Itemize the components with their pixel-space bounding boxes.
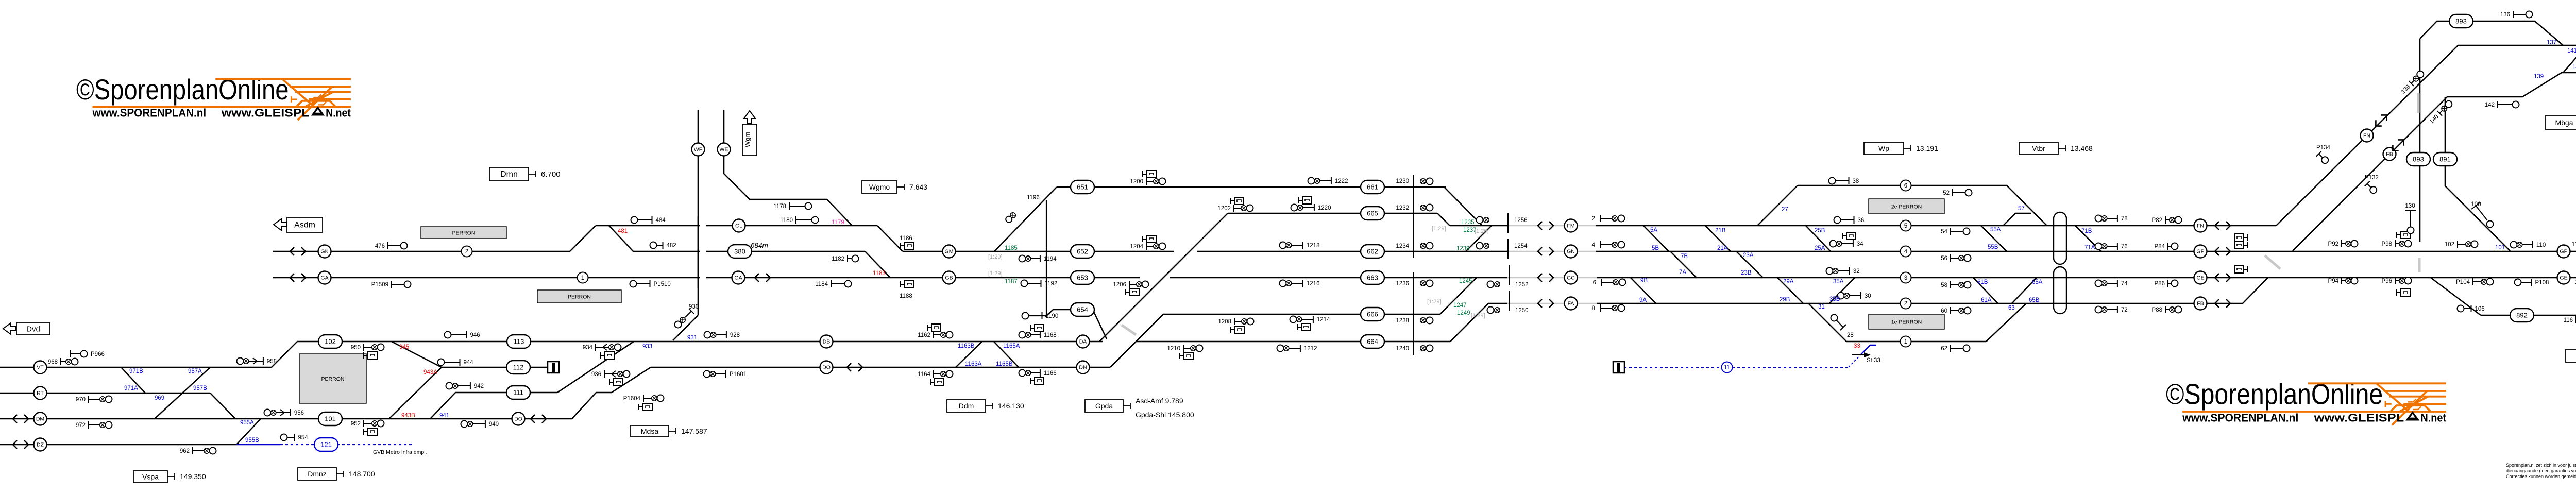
svg-text:PERRON: PERRON xyxy=(452,230,476,236)
signal 1194 xyxy=(1019,255,1026,262)
svg-text:GB: GB xyxy=(945,275,953,281)
signal 116 xyxy=(2575,316,2576,323)
signal 1168 dwarf xyxy=(1030,325,1031,331)
svg-text:661: 661 xyxy=(1367,183,1378,191)
buffer 112 row xyxy=(548,362,559,373)
svg-text:www.GLEISPL: www.GLEISPL xyxy=(2313,411,2404,424)
svg-text:61B: 61B xyxy=(1977,279,1988,285)
oval 664 xyxy=(1361,335,1384,348)
node GA xyxy=(318,271,331,284)
node platform circle 4 xyxy=(1901,246,1911,257)
arrows GN xyxy=(1538,247,1553,255)
svg-text:78: 78 xyxy=(2121,216,2128,222)
svg-text:1245: 1245 xyxy=(1459,278,1472,284)
svg-text:DZ: DZ xyxy=(37,442,44,448)
svg-text:1232: 1232 xyxy=(1396,205,1409,211)
svg-text:DB: DB xyxy=(823,339,831,345)
svg-text:101: 101 xyxy=(2495,245,2505,251)
oval 661 xyxy=(1361,180,1384,194)
wire blue shunt dash diag xyxy=(1849,355,1860,367)
svg-text:Sporenplan.nl zet zich in voor: Sporenplan.nl zet zich in voor juiste in… xyxy=(2506,463,2576,468)
signal 76 xyxy=(2095,243,2102,250)
svg-text:945: 945 xyxy=(399,344,409,350)
wire 654 row xyxy=(1045,310,1107,339)
wire FM-row5 east xyxy=(1596,225,2276,227)
svg-text:968: 968 xyxy=(48,359,58,365)
wire 651 up diagonal xyxy=(994,187,1057,251)
signal 972 xyxy=(88,421,89,429)
arrows DM xyxy=(13,415,28,423)
svg-text:971A: 971A xyxy=(124,385,138,391)
wire 892 row xyxy=(2481,315,2576,316)
svg-text:7.643: 7.643 xyxy=(909,183,927,191)
arrows DO east xyxy=(847,363,862,371)
svg-text:7A: 7A xyxy=(1679,269,1686,276)
svg-text:113: 113 xyxy=(514,338,524,346)
wire GC row gray xyxy=(1507,277,1597,279)
node platform circle 6 xyxy=(1901,180,1911,191)
wire GN-row4 east xyxy=(1596,251,2576,252)
st33 arrow xyxy=(1852,354,1866,355)
svg-text:St 33: St 33 xyxy=(1867,357,1880,364)
signal 1168 xyxy=(1019,332,1026,338)
svg-text:102: 102 xyxy=(2445,242,2454,248)
svg-text:1163B: 1163B xyxy=(958,343,975,349)
svg-text:P1601: P1601 xyxy=(730,371,747,378)
signal 1250 xyxy=(1487,307,1494,314)
signal 136 xyxy=(2513,11,2514,18)
oval 102 xyxy=(318,335,342,348)
wire GK up diagonal xyxy=(570,226,596,251)
oval 101 xyxy=(318,412,342,425)
svg-text:5: 5 xyxy=(1904,223,1907,229)
svg-text:946: 946 xyxy=(470,332,480,338)
svg-text:934: 934 xyxy=(583,345,593,351)
svg-text:1: 1 xyxy=(1904,339,1907,345)
svg-text:931: 931 xyxy=(687,335,697,341)
signal 34 dwarf xyxy=(1842,233,1843,239)
svg-text:Wgm: Wgm xyxy=(743,132,751,147)
svg-text:955B: 955B xyxy=(245,437,259,444)
svg-text:955A: 955A xyxy=(240,420,254,426)
svg-text:38: 38 xyxy=(1853,178,1859,184)
wire GA row xyxy=(273,277,1140,279)
wire RT to DM diagonal xyxy=(210,393,235,419)
svg-text:962: 962 xyxy=(180,448,190,454)
svg-text:GM: GM xyxy=(945,249,954,255)
km post dash 2 xyxy=(2418,258,2421,272)
wire crossover 141 xyxy=(2563,45,2576,73)
svg-text:956: 956 xyxy=(294,410,304,416)
wire WF merge diagonal xyxy=(673,315,698,340)
wire 666 to 663 diagonal 1245 xyxy=(1440,278,1477,314)
svg-text:101: 101 xyxy=(325,415,336,423)
svg-text:P88: P88 xyxy=(2152,307,2162,313)
svg-text:102: 102 xyxy=(325,338,336,346)
wire crossover 25B25A xyxy=(1806,226,1831,251)
wire 664 to FA diagonal 1247 xyxy=(1450,303,1488,342)
svg-text:6.700: 6.700 xyxy=(541,170,561,179)
signal 58 xyxy=(1950,281,1951,288)
signal 1180 xyxy=(795,216,796,224)
svg-text:1162: 1162 xyxy=(918,332,930,338)
arrows FB diagonal xyxy=(2390,137,2407,154)
svg-text:684m: 684m xyxy=(751,242,768,249)
wire FB to GE merge xyxy=(2243,278,2268,303)
node DO east xyxy=(820,361,833,374)
signal 1200 dwarf xyxy=(1142,171,1143,177)
signal 954 xyxy=(281,434,287,441)
svg-text:11: 11 xyxy=(1724,365,1730,371)
signal 482 xyxy=(650,242,657,249)
svg-text:Vtbr: Vtbr xyxy=(2032,144,2045,152)
wire crossover 7B7A xyxy=(1670,251,1697,278)
node GE2 xyxy=(2557,271,2570,284)
wire 891 vertical xyxy=(2445,97,2446,186)
svg-text:664: 664 xyxy=(1367,338,1378,346)
signal 1220 dwarf xyxy=(1298,197,1299,203)
box Kva xyxy=(2566,349,2576,362)
svg-text:1185: 1185 xyxy=(1005,245,1018,251)
signal 1256 xyxy=(1477,217,1483,224)
svg-text:N.net: N.net xyxy=(326,106,351,119)
gantry 2744 top xyxy=(1413,175,1414,258)
svg-text:6: 6 xyxy=(1593,280,1596,286)
signal 1192 xyxy=(1021,280,1028,287)
svg-text:DO: DO xyxy=(822,365,831,371)
svg-text:943A: 943A xyxy=(423,369,437,376)
wire 1190 stub xyxy=(1023,315,1046,316)
svg-text:1e PERRON: 1e PERRON xyxy=(1891,319,1922,326)
signal 74 xyxy=(2095,280,2102,287)
wire 661 to FM diagonal xyxy=(1444,187,1482,226)
node DO west xyxy=(512,413,525,425)
wire DM row xyxy=(0,418,572,420)
svg-text:7B: 7B xyxy=(1681,253,1688,260)
oval 892 xyxy=(2510,309,2534,322)
svg-text:4: 4 xyxy=(1904,249,1908,255)
svg-text:130: 130 xyxy=(2405,203,2415,209)
svg-text:23B: 23B xyxy=(1741,270,1752,276)
signal P1510 xyxy=(630,281,637,287)
signal 140 xyxy=(2428,99,2453,125)
perron box Duivendrecht xyxy=(299,354,366,403)
box Wgm xyxy=(742,124,757,156)
svg-text:1230: 1230 xyxy=(1396,178,1409,184)
box Dmn xyxy=(489,167,529,181)
gantry 2927 FA xyxy=(1509,291,1510,311)
signal P96 xyxy=(2395,277,2396,284)
wire 1196 vertical xyxy=(1046,200,1047,318)
signal 30 xyxy=(1838,293,1844,299)
svg-text:5B: 5B xyxy=(1652,245,1659,251)
svg-text:Correcties kunnen worden gemel: Correcties kunnen worden gemeld op conta… xyxy=(2506,474,2576,479)
oval 665 xyxy=(1361,207,1384,220)
svg-text:1256: 1256 xyxy=(1514,217,1528,224)
svg-text:1238: 1238 xyxy=(1396,318,1409,324)
node GK xyxy=(318,245,331,258)
signal 60 xyxy=(1950,307,1951,314)
wire diagonal 57 xyxy=(2007,185,2047,226)
svg-text:P966: P966 xyxy=(91,351,105,357)
svg-text:1163A: 1163A xyxy=(965,361,982,367)
node FN xyxy=(2194,219,2207,232)
wire 112 row xyxy=(442,367,548,368)
wire GL row xyxy=(596,225,877,227)
svg-text:930: 930 xyxy=(689,304,699,310)
signal 1202 dwarf xyxy=(1230,198,1231,204)
svg-text:5A: 5A xyxy=(1650,227,1657,233)
arrows FM xyxy=(1538,222,1553,230)
svg-text:62: 62 xyxy=(1941,346,1947,352)
svg-text:www.SPORENPLAN.nl: www.SPORENPLAN.nl xyxy=(92,106,207,119)
gantry 2744 bottom xyxy=(1413,272,1414,355)
oval 891 xyxy=(2433,152,2457,166)
oval 121 xyxy=(314,438,338,451)
svg-text:941: 941 xyxy=(439,413,449,419)
svg-text:21B: 21B xyxy=(1715,228,1726,234)
svg-text:970: 970 xyxy=(76,397,86,403)
node FB2 xyxy=(2383,148,2396,161)
node DN xyxy=(1077,361,1090,374)
svg-text:P92: P92 xyxy=(2328,241,2338,247)
svg-text:P98: P98 xyxy=(2382,241,2392,247)
svg-text:1236: 1236 xyxy=(1396,281,1409,287)
svg-text:148.700: 148.700 xyxy=(349,470,375,478)
svg-text:112: 112 xyxy=(2572,242,2576,248)
signal 1210 xyxy=(1183,345,1184,352)
signal 968 xyxy=(60,358,61,365)
wire GN row gray xyxy=(1507,251,1596,252)
svg-text:P82: P82 xyxy=(2152,217,2162,224)
svg-text:1: 1 xyxy=(581,275,584,281)
svg-text:1212: 1212 xyxy=(1304,346,1317,352)
signal 72 xyxy=(2095,306,2102,313)
svg-text:GA: GA xyxy=(734,275,742,281)
svg-text:GC: GC xyxy=(1567,275,1575,281)
node GC xyxy=(1565,271,1578,284)
svg-text:PERRON: PERRON xyxy=(321,376,345,382)
wire DA to 665 long diagonal xyxy=(1099,213,1228,342)
svg-text:944: 944 xyxy=(464,360,474,366)
wire 893 loop xyxy=(2420,21,2563,45)
wire 891 to GP diagonal xyxy=(2445,186,2510,251)
oval 652 xyxy=(1071,245,1094,258)
svg-text:380: 380 xyxy=(734,248,745,255)
svg-text:dienaangaande geen garanties v: dienaangaande geen garanties voor nauwke… xyxy=(2506,468,2576,473)
svg-text:1252: 1252 xyxy=(1515,282,1529,288)
node DA xyxy=(1077,335,1090,348)
signal 928 xyxy=(704,332,711,338)
svg-text:971B: 971B xyxy=(129,368,143,374)
wire 652 row east xyxy=(1197,251,1507,252)
signal dwarf GP b xyxy=(2234,242,2244,249)
wire GM row xyxy=(903,251,1174,252)
svg-text:1204: 1204 xyxy=(1130,244,1143,250)
arrows GC xyxy=(1538,274,1553,282)
svg-text:653: 653 xyxy=(1077,274,1088,282)
svg-text:58: 58 xyxy=(1941,282,1947,288)
svg-text:GA: GA xyxy=(320,275,328,281)
wire FA-row2 east xyxy=(1597,303,2243,304)
svg-text:GN: GN xyxy=(1567,249,1575,255)
wire GL down diagonal 481 xyxy=(609,226,633,251)
wire crossover 71B71A xyxy=(2075,226,2101,251)
gantry 2927 GC xyxy=(1509,265,1510,285)
node GP xyxy=(2194,245,2207,258)
svg-text:1214: 1214 xyxy=(1317,317,1330,323)
signal 1184 xyxy=(831,280,832,287)
svg-text:1216: 1216 xyxy=(1307,281,1320,287)
svg-text:1180: 1180 xyxy=(780,217,793,224)
svg-text:P104: P104 xyxy=(2456,279,2470,285)
wire row6 xyxy=(1798,185,2007,186)
svg-text:29B: 29B xyxy=(1780,297,1790,303)
svg-text:DO: DO xyxy=(514,416,522,422)
break 380-WF xyxy=(700,250,706,253)
oval 893 low xyxy=(2406,152,2430,166)
svg-text:P134: P134 xyxy=(2316,145,2330,151)
svg-text:www.GLEISPL: www.GLEISPL xyxy=(221,106,310,119)
svg-text:972: 972 xyxy=(76,422,86,429)
arrows GE xyxy=(2215,274,2230,282)
svg-text:957B: 957B xyxy=(193,385,207,391)
svg-text:25B: 25B xyxy=(1815,228,1825,234)
svg-text:952: 952 xyxy=(351,421,361,427)
svg-text:1164: 1164 xyxy=(918,371,930,378)
node platform circle 2 xyxy=(1901,298,1911,309)
svg-text:52: 52 xyxy=(1943,190,1950,196)
svg-text:[1:29]: [1:29] xyxy=(988,270,1003,277)
node GL xyxy=(733,219,745,232)
svg-text:13.191: 13.191 xyxy=(1916,144,1938,152)
arrows FN xyxy=(2215,222,2230,230)
signal 940 xyxy=(461,421,468,428)
svg-text:FB: FB xyxy=(2386,151,2393,158)
wire crossover 971 xyxy=(121,367,145,393)
wire WF vertical redraw xyxy=(698,216,699,288)
svg-text:893: 893 xyxy=(2455,18,2467,25)
signal 942 xyxy=(446,383,453,389)
svg-text:141A: 141A xyxy=(2572,64,2576,71)
svg-text:P108: P108 xyxy=(2535,280,2549,286)
svg-text:4: 4 xyxy=(1592,242,1596,248)
wire blue shunt diagonal st33 xyxy=(1860,345,1876,355)
svg-text:1254: 1254 xyxy=(1514,243,1528,249)
signal 1206 xyxy=(1129,281,1130,288)
arrows DZ xyxy=(13,440,28,449)
km post dash 1 xyxy=(2417,93,2420,113)
svg-text:141B: 141B xyxy=(2567,48,2576,54)
svg-text:[1:29]: [1:29] xyxy=(1427,299,1442,305)
svg-text:N.net: N.net xyxy=(2420,411,2446,424)
svg-text:[1:29]: [1:29] xyxy=(1475,228,1489,234)
oval 654 xyxy=(1071,303,1094,316)
perron box Diemen Zuid xyxy=(537,290,621,303)
node FM xyxy=(1565,219,1578,232)
km post dash 3 xyxy=(1122,325,1136,335)
signal 1210 dwarf xyxy=(1179,353,1180,359)
svg-text:3: 3 xyxy=(1904,275,1907,281)
signal P966 xyxy=(70,350,71,357)
svg-text:34: 34 xyxy=(1857,241,1863,247)
wire WF track vertical xyxy=(698,110,699,315)
node DB xyxy=(820,335,833,348)
wire 665 to FM merge xyxy=(1437,213,1450,226)
svg-text:54: 54 xyxy=(1941,229,1947,235)
signal P1601 xyxy=(704,371,710,378)
logo SporenplanOnline top-left xyxy=(76,74,351,120)
arrows FA xyxy=(1538,299,1553,308)
signal P1604 dwarf xyxy=(638,404,639,410)
svg-text:1208: 1208 xyxy=(1218,319,1231,325)
node DZ xyxy=(34,438,47,451)
gantry 2927 FM xyxy=(1507,213,1509,233)
svg-text:DN: DN xyxy=(1079,365,1087,371)
wire diagonal 27 xyxy=(1757,185,1798,226)
signal 1218 xyxy=(1280,242,1286,249)
signal P98 xyxy=(2395,240,2396,247)
wire crossover 61B61A xyxy=(1973,278,1998,303)
signal P88 xyxy=(2165,306,2166,313)
wire crossover 9B9A xyxy=(1631,278,1656,303)
box Mbga xyxy=(2545,116,2576,129)
signal 106 xyxy=(2458,305,2464,312)
svg-text:9A: 9A xyxy=(1639,297,1647,303)
svg-text:71A: 71A xyxy=(2084,245,2095,251)
wire FA row west xyxy=(1488,303,1507,304)
bridge symbol south xyxy=(2054,267,2066,314)
signal dwarf GE xyxy=(2234,266,2244,273)
svg-text:957A: 957A xyxy=(188,368,202,374)
svg-text:1190: 1190 xyxy=(1046,313,1059,319)
oval 111 xyxy=(506,386,530,399)
break GA-WF xyxy=(700,276,706,279)
wire FB diagonal to Almere xyxy=(2293,73,2576,251)
node RT xyxy=(34,387,47,400)
signal 956 xyxy=(264,410,271,416)
signal 952 dwarf xyxy=(363,429,364,435)
svg-text:928: 928 xyxy=(730,332,740,338)
oval 380 xyxy=(728,245,752,258)
svg-text:21A: 21A xyxy=(1717,245,1728,251)
svg-text:Wp: Wp xyxy=(1878,144,1889,152)
svg-text:106: 106 xyxy=(2475,306,2485,312)
svg-text:P84: P84 xyxy=(2155,244,2165,250)
svg-text:1222: 1222 xyxy=(1335,178,1348,184)
signal 52 xyxy=(1952,189,1953,196)
svg-text:958: 958 xyxy=(267,359,277,365)
wire DZ to DM diagonal xyxy=(236,419,261,445)
svg-text:35A: 35A xyxy=(1833,279,1844,285)
svg-text:893: 893 xyxy=(2413,156,2424,163)
signal 946 xyxy=(445,332,451,338)
wire diagonal 933 xyxy=(557,342,634,393)
svg-text:DA: DA xyxy=(1079,339,1087,345)
svg-text:GE: GE xyxy=(2560,275,2567,281)
node GB xyxy=(943,271,956,284)
svg-text:25A: 25A xyxy=(1815,245,1825,251)
wire diagonal 941 xyxy=(430,393,455,419)
svg-text:76: 76 xyxy=(2121,244,2128,250)
svg-text:Gpda-Shl 145.800: Gpda-Shl 145.800 xyxy=(1136,411,1194,419)
oval 113 xyxy=(507,335,531,348)
signal 1214 dwarf xyxy=(1297,324,1298,330)
node platform circle 3 xyxy=(1901,272,1911,283)
node VT xyxy=(34,361,47,374)
svg-text:71B: 71B xyxy=(2081,228,2092,234)
node platform circle 1 xyxy=(1901,336,1911,347)
